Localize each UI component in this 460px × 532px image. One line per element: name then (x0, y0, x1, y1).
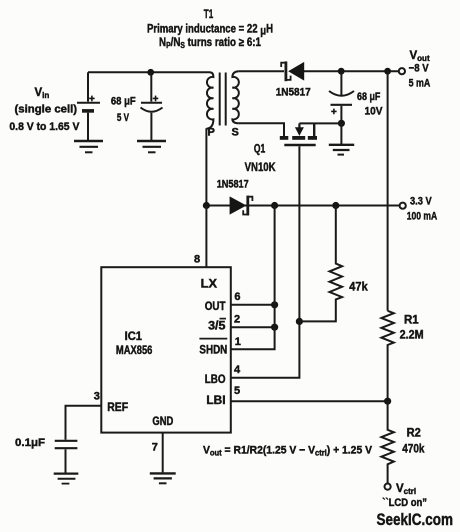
transformer T1 core (220, 73, 226, 126)
svg-text:LBI: LBI (206, 395, 225, 407)
junction: rail / OUT tie (271, 202, 278, 209)
svg-text:SeekIC.com: SeekIC.com (377, 510, 454, 529)
svg-text:+: + (89, 94, 95, 105)
label VN10K (245, 162, 277, 174)
label 1N5817 (D1) (276, 87, 311, 99)
svg-text:47k: 47k (349, 282, 368, 294)
wire: secondary top to diode D1 (239, 70, 284, 72)
svg-text:5: 5 (234, 385, 240, 397)
label 2.2M (400, 329, 424, 341)
label pin 6 (234, 291, 240, 303)
svg-text:(single cell): (single cell) (15, 104, 78, 116)
junction: rail / LX (203, 202, 210, 209)
label (single cell) (15, 104, 78, 116)
transistor Q1 VN10K mosfet (239, 123, 342, 145)
transformer T1 secondary winding (232, 71, 239, 123)
label IC1 (125, 331, 143, 343)
wire: LBI pin 5 (231, 400, 388, 402)
svg-text:MAX856: MAX856 (116, 345, 152, 357)
wire: OUT pin 6 (231, 304, 275, 306)
svg-text:LBO: LBO (205, 374, 226, 386)
svg-text:R2: R2 (407, 427, 421, 439)
svg-text:6: 6 (234, 291, 240, 303)
svg-text:Vout: Vout (410, 50, 430, 63)
capacitor C3 0.1uF (55, 441, 78, 473)
label Vctrl (396, 483, 416, 496)
wire: Vin positive rail (88, 71, 210, 73)
svg-text:1N5817: 1N5817 (276, 87, 311, 99)
wire: Q1 gate to LBO pin 4 and 47k node (231, 146, 300, 377)
svg-text:68 μF: 68 μF (111, 96, 136, 108)
label primary inductance = 22 uH (147, 24, 273, 38)
label REF (107, 402, 128, 414)
label MAX856 (116, 345, 152, 357)
svg-text:1N5817: 1N5817 (217, 179, 249, 191)
ground (GND pin 7) (150, 473, 176, 483)
label -8 V (409, 62, 430, 74)
svg-text:Primary inductance = 22 μH: Primary inductance = 22 μH (147, 24, 273, 38)
svg-text:LX: LX (201, 279, 218, 291)
label 10V (365, 106, 384, 118)
wire: -8V feedback through R1 (387, 71, 389, 311)
label LX (201, 279, 218, 291)
junction: -8V rail / R1 feedback (384, 68, 391, 75)
label pin 8 (194, 254, 200, 266)
label Vout (410, 50, 430, 63)
svg-text:Vctrl: Vctrl (396, 483, 416, 496)
svg-text:1: 1 (235, 336, 241, 348)
svg-text:``LCD on”: ``LCD on” (382, 497, 427, 509)
label OUT (205, 301, 226, 313)
label 68 uF (C2) (357, 91, 381, 103)
label pin 3 (94, 390, 100, 402)
wire: SHDN pin 1 and tie to 3.3V rail (231, 206, 275, 350)
junction: LBI / R1 / R2 (384, 398, 391, 405)
label Np/Ns turns ratio >= 6:1 (159, 37, 262, 50)
svg-text:−8 V: −8 V (409, 62, 430, 74)
label 5 V (117, 112, 130, 124)
svg-text:S: S (232, 127, 239, 139)
svg-text:4: 4 (234, 364, 241, 376)
wire: GND pin 7 (162, 433, 164, 473)
terminal 3.3V (400, 203, 406, 209)
formula Vout = R1/R2(1.25 V - Vctrl) + 1.25 V (203, 444, 373, 457)
junction: pin 6 / tie (271, 301, 278, 308)
junction: gate line / 47k (296, 318, 303, 325)
label SHDN with overbar (199, 339, 227, 357)
terminal Vctrl (385, 484, 391, 490)
watermark SeekIC.com (377, 510, 454, 529)
svg-text:2: 2 (234, 313, 240, 325)
label R2 (407, 427, 421, 439)
resistor R1 2.2M (381, 311, 393, 401)
svg-text:Q1: Q1 (254, 144, 266, 156)
svg-text:0.1μF: 0.1μF (15, 437, 45, 449)
svg-text:NP/NS turns ratio ≥ 6:1: NP/NS turns ratio ≥ 6:1 (159, 37, 262, 50)
label R1 (404, 314, 419, 326)
label 3/5 with overbar (208, 319, 226, 333)
wire: REF pin 3 (66, 406, 102, 440)
ground (C2) (329, 123, 354, 154)
diode D1 1N5817 schottky (281, 61, 304, 81)
transformer T1 primary winding (206, 72, 213, 129)
capacitor C1 68uF 5V (141, 72, 163, 140)
battery B1 single cell (77, 72, 100, 140)
svg-text:0.8 V to 1.65 V: 0.8 V to 1.65 V (9, 121, 80, 133)
ground (C3) (54, 474, 79, 484)
svg-text:+: + (331, 107, 337, 118)
junction: -8V rail / C2 (338, 68, 345, 75)
resistor R2 470k (381, 401, 393, 483)
terminal Vout -8V (399, 68, 405, 74)
label pin 7 (152, 441, 158, 453)
wire: 3.3V rail (206, 205, 399, 207)
svg-text:3: 3 (94, 390, 100, 402)
label 470k (402, 443, 425, 455)
label 100 mA (407, 211, 438, 223)
svg-text:10V: 10V (365, 106, 384, 118)
wire: primary bottom to LX rail (205, 128, 207, 206)
label 5 mA (409, 78, 431, 90)
svg-text:IC1: IC1 (125, 331, 143, 343)
svg-text:470k: 470k (402, 443, 425, 455)
label P (208, 127, 215, 139)
svg-text:7: 7 (152, 441, 158, 453)
label pin 2 (234, 313, 240, 325)
svg-text:P: P (208, 127, 215, 139)
label T1 (204, 9, 214, 21)
svg-text:REF: REF (107, 402, 128, 414)
label 3.3 V (410, 196, 432, 208)
ground (battery) (74, 141, 103, 152)
diode D2 1N5817 schottky (230, 196, 253, 216)
label LCD on (382, 497, 427, 509)
label Vin (35, 87, 50, 100)
svg-text:+: + (153, 94, 159, 105)
capacitor C2 68uF 10V (329, 71, 354, 123)
label 68 uF (C1) (111, 96, 136, 108)
svg-text:VN10K: VN10K (245, 162, 277, 174)
label LBI (206, 395, 225, 407)
svg-text:Vout = R1/R2(1.25 V − Vctrl) +: Vout = R1/R2(1.25 V − Vctrl) + 1.25 V (203, 444, 373, 457)
label 0.8 V to 1.65 V (9, 121, 80, 133)
svg-text:3.3 V: 3.3 V (410, 196, 432, 208)
IC1 MAX856 box (101, 267, 231, 432)
junction: rail / 47k top (332, 202, 339, 209)
label LBO (205, 374, 226, 386)
label 0.1uF (15, 437, 45, 449)
svg-text:8: 8 (194, 254, 200, 266)
ground (C1) (137, 141, 166, 152)
label GND (152, 416, 173, 428)
svg-text:3/5: 3/5 (208, 321, 226, 333)
svg-text:5 V: 5 V (117, 112, 130, 124)
wire: -8V output rail (304, 70, 399, 72)
wire: LX pin 8 (205, 206, 207, 268)
svg-text:5 mA: 5 mA (409, 78, 431, 90)
label 1N5817 (D2) (217, 179, 249, 191)
label Q1 (254, 144, 266, 156)
svg-text:100 mA: 100 mA (407, 211, 438, 223)
svg-text:T1: T1 (204, 9, 214, 21)
label pin 1 (235, 336, 241, 348)
junction: C2 / Q1 source / ground (338, 120, 345, 127)
svg-text:R1: R1 (404, 314, 419, 326)
label pin 5 (234, 385, 240, 397)
label pin 4 (234, 364, 241, 376)
junction: pin 2 / tie (271, 324, 278, 331)
svg-text:SHDN: SHDN (199, 345, 227, 357)
svg-text:OUT: OUT (205, 301, 226, 313)
label 47k (349, 282, 368, 294)
junction: rail / C1 (147, 69, 154, 76)
svg-text:68 μF: 68 μF (357, 91, 381, 103)
svg-text:Vin: Vin (35, 87, 50, 100)
svg-text:GND: GND (152, 416, 173, 428)
wire: 3/5 pin 2 (231, 326, 275, 328)
label S (232, 127, 239, 139)
resistor 47k (299, 206, 342, 322)
svg-text:2.2M: 2.2M (400, 329, 424, 341)
